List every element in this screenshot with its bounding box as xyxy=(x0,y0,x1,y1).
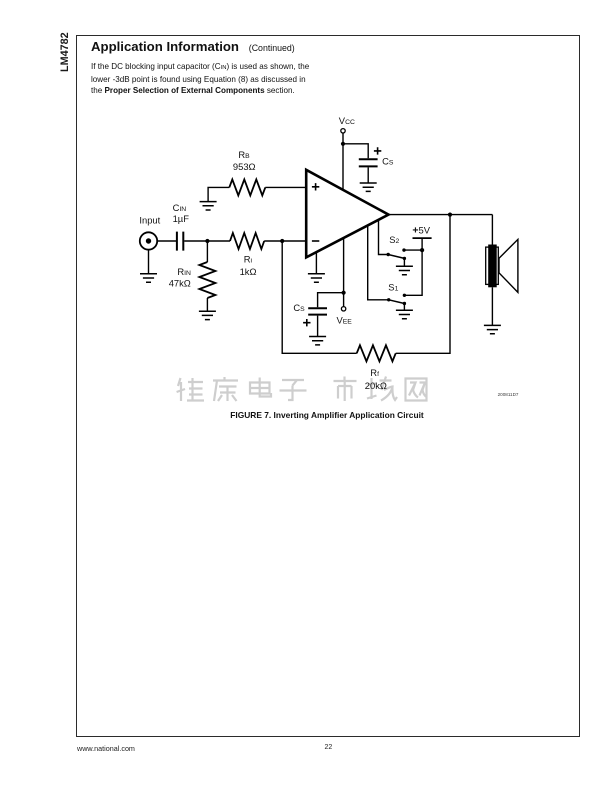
svg-text:953Ω: 953Ω xyxy=(233,161,256,172)
label Input xyxy=(139,215,160,226)
label 20k xyxy=(365,380,387,391)
footer page number xyxy=(325,744,333,751)
label Rf xyxy=(370,367,379,378)
terminal VCC xyxy=(341,129,345,133)
ground (input jack) xyxy=(140,274,157,282)
wire S2 lower contact to ground xyxy=(403,258,405,266)
wire feedback from node B down xyxy=(282,241,357,353)
wire opamp output xyxy=(389,214,493,216)
svg-text:RB: RB xyxy=(238,149,250,160)
label Ri xyxy=(244,253,253,264)
wire CS top to ground xyxy=(367,167,369,183)
label 953 xyxy=(233,161,256,172)
svg-text:VCC: VCC xyxy=(339,115,355,126)
resistor Ri (horizontal) xyxy=(230,233,264,249)
switch S1 lever xyxy=(389,300,405,304)
wire VEE pin down xyxy=(343,238,345,306)
wire RB to opamp plus input xyxy=(265,186,306,188)
svg-text:+5V: +5V xyxy=(412,225,430,237)
wire opamp S1 pin to switch pole xyxy=(368,226,389,300)
wire VEE node to CS bottom xyxy=(318,293,344,308)
sidebar part number LM4782 (rotated) xyxy=(59,32,71,72)
minus input sign xyxy=(312,240,319,242)
svg-text:Ri: Ri xyxy=(244,253,253,264)
svg-text:CS: CS xyxy=(293,302,305,313)
speaker horn xyxy=(499,239,518,292)
label CIN xyxy=(173,202,187,213)
resistor Rf (horizontal) xyxy=(357,345,396,361)
figure caption xyxy=(76,410,578,420)
plus sign of CS top xyxy=(374,147,381,154)
svg-text:S1: S1 xyxy=(388,282,398,293)
wire opamp S2 pin to switch pole xyxy=(379,220,389,255)
svg-text:1kΩ: 1kΩ xyxy=(240,266,257,277)
resistor RIN (vertical) xyxy=(199,262,215,298)
ground (op-amp pin) xyxy=(308,274,325,282)
node B junction xyxy=(280,239,284,243)
label VCC xyxy=(339,115,355,126)
wire CIN to node A to Ri xyxy=(184,240,230,242)
label RB xyxy=(238,149,250,160)
wire opamp gnd pin xyxy=(315,252,317,273)
page frame box xyxy=(76,35,580,737)
wire VCC terminal down to opamp top edge xyxy=(342,133,344,190)
wire node A down to RIN xyxy=(206,241,208,262)
ground (S1) xyxy=(396,310,413,318)
capacitor CS (bottom bypass) xyxy=(308,308,327,314)
svg-text:S2: S2 xyxy=(389,234,399,245)
switch S1 upper contact xyxy=(403,294,406,297)
terminal VEE xyxy=(341,307,345,311)
wire jack ground stem xyxy=(148,250,150,274)
switch S2 upper contact xyxy=(402,248,405,251)
svg-text:CS: CS xyxy=(382,156,394,167)
svg-text:Rf: Rf xyxy=(370,367,379,378)
ground (CS top) xyxy=(360,183,377,191)
label +5V xyxy=(412,225,430,237)
switch S2 pole xyxy=(387,253,390,256)
label S1 xyxy=(388,282,398,293)
ground (CS bottom) xyxy=(309,337,326,345)
wire Rf to output riser xyxy=(396,215,450,354)
wire VCC node to CS top xyxy=(343,144,368,159)
switch S2 lever xyxy=(388,255,404,259)
wire Ri to node B to opamp minus input xyxy=(264,240,306,242)
svg-text:VEE: VEE xyxy=(337,315,353,326)
svg-text:RIN: RIN xyxy=(177,266,191,277)
node +5V junction xyxy=(420,248,424,252)
ground (RB) xyxy=(200,202,217,210)
ground (S2) xyxy=(396,266,413,274)
plus sign of CS bottom xyxy=(303,319,310,326)
wire RIN to ground xyxy=(206,298,208,311)
svg-text:47kΩ: 47kΩ xyxy=(169,277,191,288)
switch S1 lower contact xyxy=(403,302,406,305)
switch S2 lower contact xyxy=(403,257,406,260)
node VCC junction xyxy=(341,142,345,146)
label RIN xyxy=(177,266,191,277)
label 47k xyxy=(169,277,191,288)
wire S1 lower contact to ground xyxy=(403,304,405,311)
wire RB left lead and corner to ground xyxy=(208,187,229,201)
label 1k xyxy=(240,266,257,277)
ground (RIN) xyxy=(199,311,216,319)
watermark 维库电子市场网 (drawn strokes, light gray) xyxy=(177,377,427,402)
label CS top xyxy=(382,156,394,167)
node output junction xyxy=(448,213,452,217)
label S2 xyxy=(389,234,399,245)
body paragraph xyxy=(91,61,371,97)
svg-text:200811D7: 200811D7 xyxy=(498,392,519,397)
wire jack to CIN xyxy=(157,240,176,242)
footer left xyxy=(77,744,135,753)
ground (speaker) xyxy=(484,325,501,333)
speaker driver xyxy=(486,245,499,288)
wire CS bottom to ground xyxy=(317,316,319,337)
+5V rail bar xyxy=(413,237,432,239)
section title xyxy=(91,39,295,54)
wire speaker to ground xyxy=(491,287,493,325)
wire S2 upper contact to +5V rail xyxy=(404,249,422,251)
wire +5V down xyxy=(404,238,422,295)
node VEE junction xyxy=(342,291,346,295)
resistor RB (horizontal) xyxy=(229,179,265,195)
node A junction xyxy=(205,239,209,243)
op-amp U1 xyxy=(306,170,388,258)
input connector jack xyxy=(140,232,157,249)
plus input sign xyxy=(312,183,319,190)
capacitor CS (top bypass) xyxy=(359,159,378,166)
svg-text:Input: Input xyxy=(139,215,160,226)
svg-text:1µF: 1µF xyxy=(173,213,190,224)
svg-text:20kΩ: 20kΩ xyxy=(365,380,387,391)
switch S1 pole xyxy=(387,298,390,301)
label drawing code 200811D7 xyxy=(498,392,519,397)
wire output down to speaker xyxy=(491,215,493,247)
label CS bottom xyxy=(293,302,305,313)
capacitor C_IN xyxy=(177,232,183,251)
label 1uF xyxy=(173,213,190,224)
label VEE xyxy=(337,315,353,326)
svg-text:CIN: CIN xyxy=(173,202,187,213)
